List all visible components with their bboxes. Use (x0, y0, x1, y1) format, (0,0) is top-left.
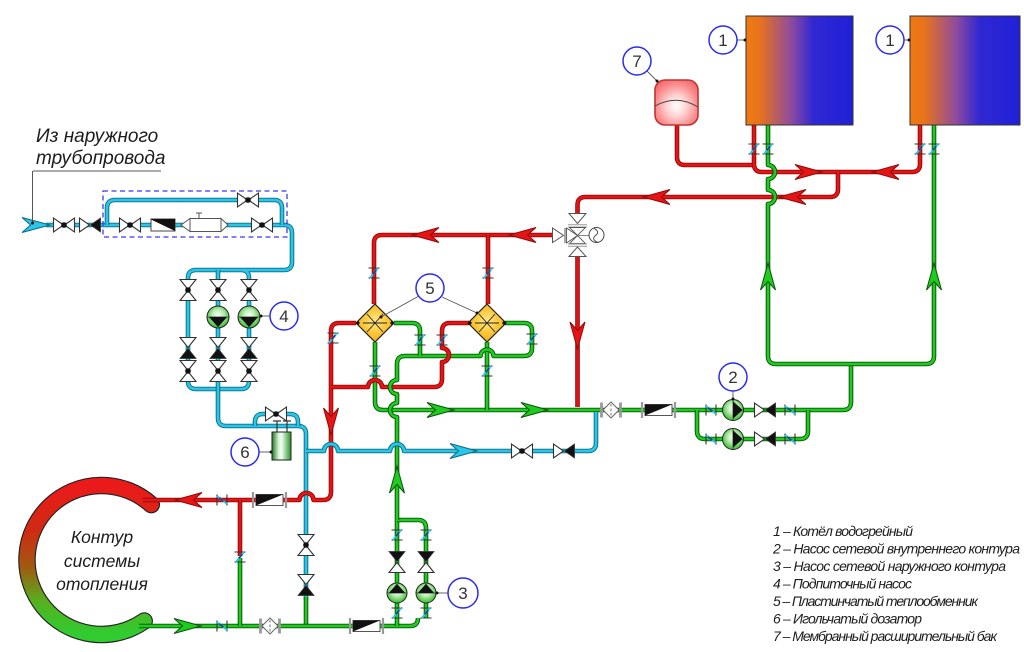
check valve make-up branch1 (180, 338, 196, 359)
valve mark on bypass (235, 552, 246, 562)
svg-text:1: 1 (885, 31, 894, 50)
make-up down pipe check valve (298, 575, 314, 596)
cyan line valve (512, 444, 533, 458)
svg-text:3: 3 (458, 584, 467, 603)
label circle 4 pump4 (260, 302, 299, 330)
svg-text:5 – Пластинчатый теплообменник: 5 – Пластинчатый теплообменник (773, 593, 979, 609)
valve mark pump2 lower inlet (706, 434, 716, 445)
wire: make-up pump branch 2 (216, 270, 221, 389)
wire: boiler red drop pipes and hot collector y=172 (754, 125, 920, 172)
wire: exchanger1 right port branch to collector A (394, 323, 420, 356)
flow arrow green return 2 (521, 403, 548, 418)
return line check rect (253, 492, 286, 508)
wire: make-up down pipe x=306 (304, 443, 309, 600)
wire: make-up main line y=451 (306, 412, 596, 451)
valve mark exchanger2 right branch (527, 334, 538, 344)
valve mark boiler1 red pipe (749, 144, 760, 154)
dosing bypass valve (266, 407, 287, 421)
label circle 3 pump3 (436, 578, 479, 608)
check valve inlet (80, 218, 101, 232)
svg-text:системы: системы (64, 551, 140, 571)
label circle 6 dosing (231, 438, 273, 466)
valve mark exchanger1 right branch (415, 335, 426, 345)
valve mark exchanger1 left branch (328, 333, 339, 343)
check valve make-up branch2 (210, 338, 226, 359)
flow arrow hot collector left (872, 165, 899, 180)
valve mark exchanger1 bottom riser (370, 366, 381, 376)
svg-text:4: 4 (279, 307, 288, 326)
svg-text:5: 5 (425, 279, 434, 298)
svg-text:6 – Игольчатый дозатор: 6 – Игольчатый дозатор (773, 611, 922, 627)
wire: bypass lower green part x=240 (238, 558, 243, 626)
valve mark pump2 upper outlet (785, 405, 795, 416)
heating circuit ring (27, 485, 151, 634)
wire: big red drop from mixing valve x=577.5 (575, 256, 580, 407)
valve mark boiler2 green pipe (929, 144, 940, 154)
wire: green main return line y=410 (375, 342, 851, 410)
inlet flow arrow (22, 218, 50, 233)
check valve pump3 branch2 (418, 552, 434, 573)
pump P2b (723, 429, 744, 450)
valve make-up branch1 bottom (180, 361, 196, 382)
svg-text:отопления: отопления (56, 574, 148, 594)
wire: red inter-exchanger line y=387 and riser to exchanger2 left port (331, 323, 469, 387)
wire: bypass upper red part x=240 (238, 500, 243, 556)
valve V1 inlet (54, 218, 75, 232)
label circle 1 boiler2 (876, 26, 911, 54)
cyan line check valve (554, 444, 575, 458)
cyan line arrow (450, 444, 477, 459)
green balancing valve y=410 (602, 402, 621, 418)
dashed meter box (103, 191, 287, 237)
wire: dosing unit bypass arc (255, 414, 298, 426)
wire: boiler green risers and bottom line y=364 (768, 125, 934, 364)
boiler 2 (910, 16, 1020, 125)
wire: pump3 riser x=397 up to collector A (390, 356, 405, 520)
pump P2a (723, 400, 744, 421)
wire: exchanger2 top riser x=488 (486, 235, 491, 304)
flow arrow boiler1 green riser (761, 263, 776, 290)
green strainer y=410 (642, 402, 675, 418)
label circle 5 exchangers (380, 274, 479, 319)
svg-text:2 – Насос сетевой внутреннего: 2 – Насос сетевой внутреннего контура (772, 541, 1020, 557)
valve mark pump3 branch2 bottom (421, 608, 432, 618)
pump P3a (387, 583, 407, 603)
flow arrow hot collector right (795, 165, 822, 180)
check valve make-up branch3 (241, 338, 257, 359)
wire: red outer drop x=331 and heating return line y=500 (143, 323, 356, 500)
heat exchanger U2 diamond (468, 304, 506, 342)
supply balancing valve (261, 618, 280, 634)
valve mark pump3 branch1 top (392, 530, 403, 540)
svg-text:Из наружного: Из наружного (36, 126, 158, 147)
valve mark exchanger2 left branch (437, 335, 448, 345)
supply valve mark (217, 621, 227, 632)
flow arrow boiler2 green riser (927, 263, 942, 290)
svg-text:1 – Котёл водогрейный: 1 – Котёл водогрейный (773, 523, 913, 539)
supply strainer (350, 618, 383, 634)
valve make-up branch2 bottom (210, 361, 226, 382)
dosing unit cylinder (272, 421, 291, 460)
wire: expansion tank line y=165 (677, 125, 752, 165)
red outer big down arrow (324, 408, 339, 435)
supply line arrow (174, 619, 201, 634)
three-way mixing valve (553, 214, 605, 257)
legend (772, 523, 1020, 644)
valve mark exchanger2 bottom riser (482, 366, 493, 376)
expansion tank body (655, 80, 698, 125)
valve make-up branch3 bottom (241, 361, 257, 382)
flow arrow red top line 2 (509, 228, 536, 243)
label circle 1 boiler1 (709, 26, 747, 54)
svg-text:Контур: Контур (71, 527, 134, 547)
valve on meter bypass (238, 193, 259, 207)
make-up down pipe valve (298, 535, 314, 556)
ring label text (56, 527, 148, 594)
inlet label text (31, 126, 165, 225)
valve mark on return line (217, 495, 227, 506)
make-up pump P4a (207, 306, 229, 328)
strainer in meter box (151, 219, 175, 231)
valve make-up branch2 top (210, 280, 226, 301)
big red drop arrow from mixing valve (570, 322, 585, 349)
valve mark exchanger2 top riser (483, 268, 494, 278)
valve before filter (120, 218, 141, 232)
flow arrow hot header 1 (779, 190, 806, 205)
water meter (181, 213, 228, 232)
check valve pump2 lower (755, 432, 776, 446)
wire: make-up pump branch 3 riser to dosing line (218, 389, 306, 443)
svg-text:7 – Мембранный расширительный: 7 – Мембранный расширительный бак (773, 628, 998, 644)
flow arrow hot header 2 (643, 190, 670, 205)
valve mark exchanger1 top riser (369, 268, 380, 278)
svg-text:6: 6 (240, 443, 249, 462)
valve mark boiler2 red pipe (915, 144, 926, 154)
valve mark pump2 lower outlet (785, 434, 795, 445)
green riser big up arrow (390, 466, 405, 493)
svg-text:1: 1 (718, 31, 727, 50)
wire: pump3 branch 1 x=397 (395, 520, 400, 626)
flow arrow green return 1 (427, 403, 454, 418)
make-up pump P4b (238, 306, 260, 328)
svg-text:7: 7 (632, 52, 641, 71)
svg-text:2: 2 (728, 368, 737, 387)
wire: green stub below down pipe (304, 597, 309, 626)
heat exchanger U1 diamond (356, 304, 394, 342)
wire: exchanger2 bottom riser x=487 (485, 342, 490, 410)
valve mark pump3 branch2 top (421, 530, 432, 540)
valve mark pump2 upper inlet (706, 405, 716, 416)
label circle 7 tank (623, 47, 659, 83)
check valve pump3 branch1 (389, 552, 405, 573)
check valve pump2 upper (755, 403, 776, 417)
valve mark pump3 branch1 bottom (392, 608, 403, 618)
wire: pump3 branch 2 x=426 (397, 520, 426, 618)
wire: green collector A y=356 with riser to exchanger2 right port (405, 323, 532, 356)
wire: cold water inlet line y=225 (46, 225, 292, 389)
return line arrow (175, 493, 202, 508)
boiler 1 (746, 16, 853, 125)
valve after meter (252, 218, 273, 232)
valve make-up branch1 top (180, 280, 196, 301)
flow arrow red top line 1 (412, 228, 439, 243)
valve mark boiler1 green pipe (763, 144, 774, 154)
wire: pump2 lower branch loop y=439 (697, 410, 808, 439)
svg-text:4 – Подпиточный насос: 4 – Подпиточный насос (773, 576, 912, 592)
svg-text:трубопровода: трубопровода (36, 148, 165, 169)
valve make-up branch3 top (241, 280, 257, 301)
svg-text:3 – Насос сетевой наружного ко: 3 – Насос сетевой наружного контура (773, 558, 1006, 574)
wire: hot header to mixing valve y=197 (578, 172, 839, 214)
wire: red top line to exchangers y=235 (374, 235, 556, 304)
wire: water meter bypass arc (107, 200, 282, 225)
pump P3b (416, 583, 436, 603)
wire: heating supply line y=626 (139, 618, 418, 626)
label circle 2 pump2 (719, 363, 747, 401)
